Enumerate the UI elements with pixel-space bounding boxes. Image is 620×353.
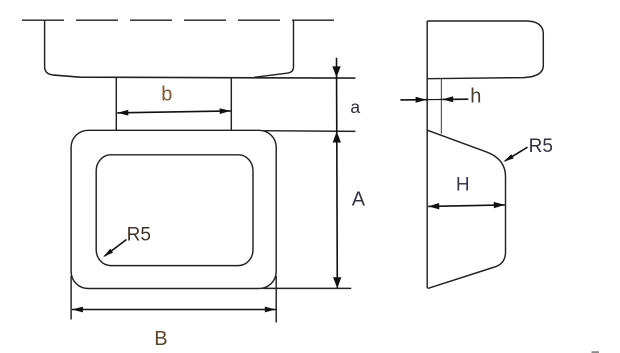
svg-text:R5: R5 <box>127 225 151 246</box>
arrowhead a top pointing down <box>332 66 340 77</box>
side view shoulder diagonal and R5 bulge curve <box>428 130 506 176</box>
arrowhead H right <box>494 202 505 208</box>
outer rect top edge extension to A line <box>262 130 355 133</box>
side view right edge <box>505 177 507 253</box>
arrowhead b left <box>117 110 128 116</box>
R5 side callout leader <box>505 147 528 161</box>
svg-text:b: b <box>161 83 172 105</box>
side view left edge <box>426 21 428 288</box>
stray gray mark bottom right <box>592 351 600 353</box>
dimension line h crossing segment <box>427 98 443 100</box>
neck right wire <box>230 78 232 131</box>
arrowhead B left <box>72 307 83 313</box>
arrowhead b right <box>220 108 231 114</box>
neck left wire <box>115 77 117 130</box>
front cap left edge <box>45 20 54 75</box>
svg-text:a: a <box>350 97 360 117</box>
arrowhead B right <box>265 307 276 313</box>
side view bottom corner and slanted bottom edge <box>428 253 506 289</box>
side view cap outline <box>427 21 543 79</box>
svg-text:B: B <box>154 328 167 350</box>
arrowhead H left <box>428 203 439 209</box>
B extension line right <box>275 276 277 323</box>
front view outer rounded rect <box>71 130 276 288</box>
dimension line h left shaft <box>400 99 426 101</box>
dashed break line (top of front view) <box>22 19 334 21</box>
arrowhead a bottom / A top pointing up <box>333 132 341 143</box>
svg-text:h: h <box>470 85 481 107</box>
R5 front callout leader <box>105 240 127 257</box>
dimension line a / A vertical <box>336 58 339 289</box>
arrowhead R5 front callout <box>103 249 113 257</box>
svg-text:A: A <box>352 189 366 211</box>
arrowhead h right <box>442 96 453 102</box>
B extension line left <box>70 276 72 320</box>
dimension line h right shaft <box>442 98 468 100</box>
dimension line B <box>72 309 276 311</box>
dimension line H <box>428 205 505 207</box>
front cap right edge <box>254 20 294 77</box>
svg-text:H: H <box>456 174 470 195</box>
front view inner rounded rect <box>96 155 253 266</box>
side view inner thickness line <box>440 78 442 133</box>
outer rect bottom edge extension to A line <box>262 287 351 289</box>
front cap bottom edge / extension line for a <box>54 75 355 78</box>
arrowhead h left <box>416 97 427 103</box>
arrowhead A bottom pointing down <box>333 277 341 288</box>
dimension line b <box>117 111 230 113</box>
arrowhead R5 side callout <box>504 154 514 162</box>
svg-text:R5: R5 <box>529 136 553 157</box>
